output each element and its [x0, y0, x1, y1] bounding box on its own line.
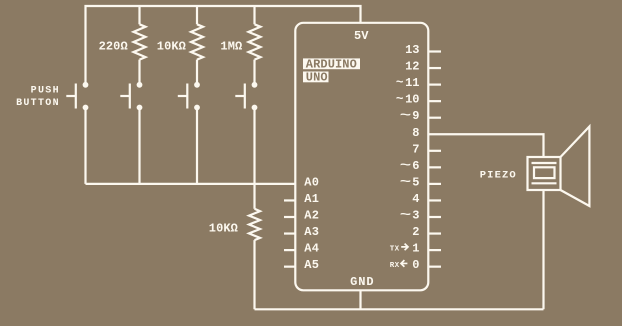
resistor R3 1M top lead [253, 6, 255, 24]
svg-text:~: ~ [400, 175, 411, 189]
pin A3 stub [284, 232, 295, 234]
svg-text:~: ~ [396, 92, 404, 106]
svg-text:A4: A4 [304, 242, 319, 256]
svg-text:TX: TX [390, 246, 400, 254]
svg-text:5: 5 [412, 175, 419, 189]
pin 10 stub [428, 100, 441, 102]
pin 1 stub [428, 249, 441, 251]
wire: Arduino GND pin to GND bus [359, 290, 361, 309]
svg-text:0: 0 [412, 258, 419, 272]
svg-text:UNO: UNO [306, 71, 328, 85]
label U1 name UNO [303, 71, 329, 85]
wire: top 5V bus from node A to Arduino 5V pin [86, 6, 361, 85]
pin 4 stub [428, 199, 441, 201]
resistor R2 10K top lead [196, 6, 198, 24]
svg-text:10: 10 [405, 93, 419, 107]
svg-text:8: 8 [412, 126, 419, 140]
svg-text:7: 7 [412, 142, 419, 156]
speaker LS1 inner rect [534, 167, 555, 178]
pin 7 stub [428, 150, 441, 152]
svg-text:10KΩ: 10KΩ [157, 39, 186, 53]
label PUSH BUTTON [16, 85, 60, 109]
svg-text:9: 9 [412, 109, 419, 123]
resistor R4 bottom lead to GND bus [253, 240, 255, 309]
wire: A0 bus horizontal to Arduino pin A0 [86, 183, 296, 185]
wire: S1 bottom to A0 bus [84, 108, 86, 184]
svg-text:220Ω: 220Ω [99, 39, 128, 53]
resistor R1 220R body [134, 24, 146, 59]
resistor R4 10K pulldown top lead [253, 184, 255, 209]
op-amp U1 Arduino Uno body [295, 23, 428, 291]
speaker LS1 cone [561, 127, 590, 207]
svg-text:1MΩ: 1MΩ [220, 39, 242, 53]
svg-text:ARDUINO: ARDUINO [306, 58, 357, 72]
svg-text:A1: A1 [304, 192, 319, 206]
pin A4 stub [284, 249, 295, 251]
svg-text:A3: A3 [304, 225, 319, 239]
resistor R4 10K pulldown body [249, 209, 260, 240]
pin 13 stub [428, 50, 441, 52]
svg-text:2: 2 [412, 225, 419, 239]
svg-text:3: 3 [412, 209, 419, 223]
svg-text:~: ~ [400, 158, 411, 172]
label U1 name ARDUINO [303, 58, 360, 72]
svg-text:A5: A5 [304, 258, 319, 272]
wire: S2 bottom to A0 bus [138, 108, 140, 184]
pin A5 stub [284, 266, 295, 268]
speaker LS1 inner top line [532, 162, 557, 164]
svg-text:13: 13 [405, 43, 419, 57]
pin 6 stub [428, 166, 441, 168]
svg-text:PIEZO: PIEZO [480, 170, 517, 182]
pushbutton S3 [178, 82, 200, 111]
wire: GND bottom bus [255, 308, 544, 310]
svg-text:BUTTON: BUTTON [16, 98, 60, 109]
pushbutton S2 [120, 82, 142, 111]
svg-text:GND: GND [350, 275, 374, 289]
label pin RX arrow 0 [390, 258, 420, 272]
svg-text:6: 6 [412, 159, 419, 173]
pushbutton S1 [66, 82, 88, 111]
resistor R2 bottom lead [196, 60, 198, 85]
wire: S3 bottom to A0 bus [196, 108, 198, 184]
svg-text:A0: A0 [304, 175, 319, 189]
svg-text:~: ~ [396, 76, 404, 90]
speaker LS1 piezo body [528, 157, 561, 190]
pin 0 stub [428, 266, 441, 268]
svg-text:12: 12 [405, 60, 419, 74]
resistor R3 bottom lead [253, 60, 255, 85]
pushbutton S4 [235, 82, 257, 111]
resistor R2 10K body [191, 24, 203, 59]
svg-text:~: ~ [400, 208, 411, 222]
svg-text:1: 1 [412, 242, 419, 256]
pin 11 stub [428, 83, 441, 85]
wire: pin 8 to piezo [428, 134, 543, 157]
svg-text:A2: A2 [304, 209, 319, 223]
pin 2 stub [428, 232, 441, 234]
resistor R3 1M body [249, 24, 261, 59]
pin 12 stub [428, 67, 441, 69]
svg-text:PUSH: PUSH [31, 85, 60, 96]
resistor R1 220R top lead [138, 6, 140, 24]
wire: piezo bottom to GND bus [542, 190, 544, 309]
pin 3 stub [428, 216, 441, 218]
pin 5 stub [428, 183, 441, 185]
pin A1 stub [284, 199, 295, 201]
svg-text:10KΩ: 10KΩ [209, 222, 238, 236]
svg-text:5V: 5V [354, 29, 369, 43]
svg-text:4: 4 [412, 192, 419, 206]
svg-text:11: 11 [405, 76, 419, 90]
svg-text:~: ~ [400, 109, 411, 123]
pin A2 stub [284, 216, 295, 218]
svg-text:RX: RX [390, 262, 400, 270]
pin 9 stub [428, 117, 441, 119]
resistor R1 bottom lead [138, 60, 140, 85]
speaker LS1 inner bottom line [532, 182, 557, 184]
label pin TX arrow 1 [390, 242, 420, 256]
wire: S4 bottom to A0 bus [253, 108, 255, 184]
